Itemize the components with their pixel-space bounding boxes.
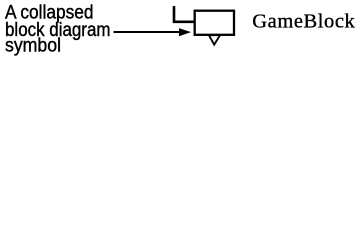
collapse triangle <box>209 35 220 44</box>
svg-text:GameBlock: GameBlock <box>252 11 355 33</box>
wire: arrow leader line <box>114 31 181 33</box>
svg-text:symbol: symbol <box>5 35 61 56</box>
arrowhead <box>179 28 191 36</box>
block rectangle <box>195 11 234 35</box>
input wire (L-shaped, into left side of block) <box>174 6 195 22</box>
caption text "A collapsed block diagram symbol" <box>5 3 111 57</box>
